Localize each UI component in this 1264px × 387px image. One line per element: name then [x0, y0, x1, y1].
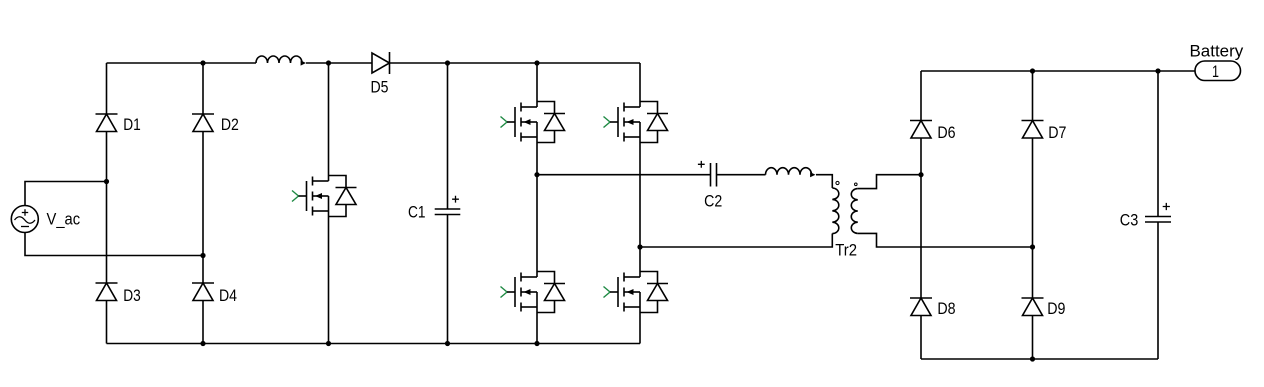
svg-text:D4: D4 — [219, 286, 237, 305]
wire V_ac bottom lead — [25, 233, 203, 256]
series inductor L2 — [766, 168, 812, 175]
wire boost mosfet column x=328.5 — [328, 63, 330, 344]
wire C2 to series inductor — [717, 174, 766, 176]
svg-text:D8: D8 — [937, 299, 955, 318]
junction top rail at C1 — [445, 60, 450, 65]
capacitor C3 — [1145, 216, 1171, 218]
junction right top rail at C3 — [1155, 68, 1160, 73]
wire bridge right-leg output to transformer primary bottom — [640, 234, 832, 248]
svg-text:D6: D6 — [937, 123, 955, 142]
battery terminal port — [1195, 61, 1241, 81]
svg-text:D5: D5 — [371, 77, 389, 96]
capacitor C2 — [710, 163, 712, 187]
svg-text:D9: D9 — [1047, 299, 1065, 318]
diode D4 — [192, 282, 214, 284]
boost inductor L1 — [256, 56, 302, 63]
wire left bridge leg x=537 — [536, 63, 538, 344]
wire C1 column x=447.5 — [447, 63, 449, 344]
junction right top rail at D7 column — [1030, 68, 1035, 73]
svg-text:Battery: Battery — [1190, 41, 1244, 60]
capacitor C1 — [435, 208, 461, 210]
bridge mosfet Q2 upper-left — [501, 117, 508, 128]
wire top rail right section y=71 — [921, 70, 1195, 72]
ac source V_ac — [11, 206, 38, 233]
transformer Tr2 primary winding — [832, 188, 839, 234]
wire V_ac top lead — [25, 182, 107, 206]
diode D9 — [1022, 297, 1044, 299]
svg-text:C3: C3 — [1120, 211, 1139, 230]
junction V_ac bottom to D2/D4 column — [200, 253, 205, 258]
svg-text:Tr2: Tr2 — [835, 241, 857, 260]
junction bottom rail at boost mosfet source — [326, 341, 331, 346]
junction left bridge leg midpoint node — [534, 172, 539, 177]
junction V_ac top to D1/D3 column — [104, 179, 109, 184]
junction top rail at D2 column — [200, 60, 205, 65]
junction bottom rail at left bridge leg — [534, 341, 539, 346]
wire top rail left section y=63 — [107, 62, 641, 64]
junction secondary top to D6/D8 column — [918, 172, 923, 177]
bridge mosfet Q4 lower-left — [501, 287, 508, 298]
bridge mosfet Q3 upper-right — [604, 117, 611, 128]
svg-text:1: 1 — [1212, 62, 1219, 81]
junction bottom rail at D2/D4 column — [200, 341, 205, 346]
wire D2/D4 column x=203 — [202, 63, 204, 344]
svg-text:V_ac: V_ac — [47, 210, 81, 229]
svg-text:D2: D2 — [221, 115, 239, 134]
wire inductor to transformer primary top — [816, 175, 832, 188]
diode D6 — [910, 120, 932, 122]
svg-text:C1: C1 — [408, 203, 426, 222]
junction secondary bottom to D7/D9 column — [1030, 244, 1035, 249]
wire D1/D3 column x=106.5 — [106, 63, 108, 344]
svg-text:C2: C2 — [704, 192, 722, 211]
wire transformer secondary top lead to node — [858, 175, 921, 189]
transformer Tr2 secondary polarity mark — [855, 183, 858, 186]
svg-text:D3: D3 — [123, 286, 141, 305]
junction bottom rail at C1 — [445, 341, 450, 346]
wire transformer secondary bottom lead to node — [858, 233, 1033, 247]
boost mosfet Q1 — [292, 191, 299, 202]
diode D5 — [372, 53, 390, 73]
diode D7 — [1022, 120, 1044, 122]
wire D7/D9 column x=1032.5 — [1032, 71, 1034, 359]
junction top rail at left bridge leg — [534, 60, 539, 65]
junction right bottom rail at D9 column — [1030, 356, 1035, 361]
transformer Tr2 primary polarity mark — [836, 181, 839, 184]
diode D8 — [910, 297, 932, 299]
svg-text:D1: D1 — [123, 115, 141, 134]
junction top rail at boost mosfet drain — [326, 60, 331, 65]
wire D6/D8 column x=921 — [920, 71, 922, 359]
svg-text:D7: D7 — [1048, 123, 1066, 142]
diode D2 — [192, 113, 214, 115]
transformer Tr2 secondary winding — [851, 189, 857, 234]
wire bridge left-leg output to C2 — [537, 174, 711, 176]
wire right bridge leg x=640 — [639, 63, 641, 344]
wire bottom rail left section y=343.5 — [107, 343, 641, 345]
wire bottom rail right section y=359 — [921, 358, 1158, 360]
wire C3 column x=1158 — [1157, 71, 1159, 359]
bridge mosfet Q5 lower-right — [604, 287, 611, 298]
junction right bridge leg midpoint node — [637, 244, 642, 249]
diode D1 — [96, 113, 118, 115]
diode D3 — [96, 282, 118, 284]
